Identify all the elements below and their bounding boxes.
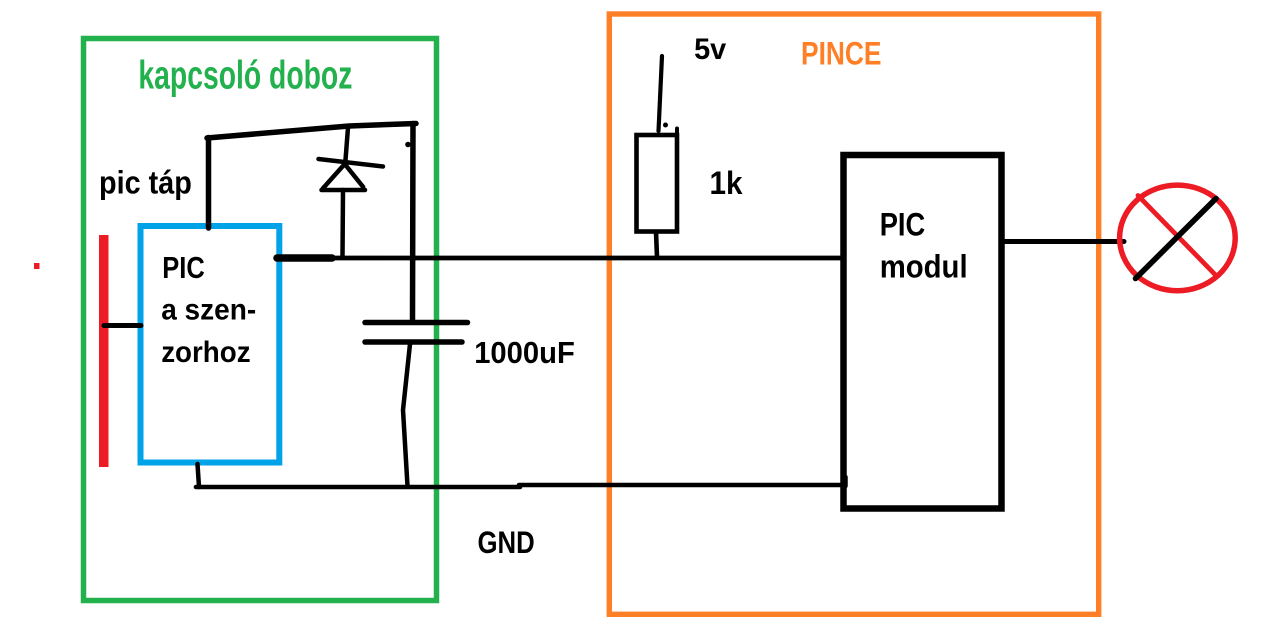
capacitor C1 lower lead [403,344,410,486]
lamp: red diagonal stroke [1138,196,1217,277]
sensor electrode bar (red) [99,235,109,467]
svg-text:1k: 1k [710,165,743,201]
lamp: black diagonal stroke [1136,199,1217,279]
junction dot on right vertical branch [405,142,411,148]
label: 5v [694,33,726,66]
box: PIC a szenzorhoz (sensor PIC) [141,226,280,463]
label: modul (modul line 2) [880,248,968,284]
wire: PIC modul output to lamp [1003,239,1124,244]
stray red dot [34,263,40,269]
wire: GND stub from sensor box bottom [198,464,200,487]
label: zorhoz (sensor box line 3) [161,336,250,369]
capacitor C1 top plate [365,320,468,326]
svg-text:modul: modul [880,248,968,284]
resistor R1 bottom lead [656,232,657,257]
box: PINCE enclosure [609,14,1098,614]
svg-text:zorhoz: zorhoz [161,336,250,369]
box: PIC modul [844,155,1002,509]
resistor R1 body (1k) [637,129,678,232]
svg-text:PIC: PIC [162,250,205,285]
box: kapcsoló doboz enclosure [84,39,437,601]
wire: vertical into top of PIC sensor box [206,138,212,229]
svg-text:a szen-: a szen- [161,293,256,326]
wire: sensor bar to PIC box [104,323,141,328]
lamp: red circle (crossed-out load) [1120,185,1236,291]
label: GND [478,524,535,560]
svg-text:PINCE: PINCE [801,36,882,72]
junction dot at resistor top [663,123,668,128]
label: PIC (modul line 1) [880,207,926,243]
wire: slanted top wire to diode/cap branch [207,124,416,139]
wire: GND horizontal net [196,477,846,487]
diode D1 triangle [322,164,366,190]
label: pic táp [99,165,192,201]
wire: main horizontal net (PIC sensor output to PIC modul) [277,256,843,261]
svg-text:GND: GND [478,524,535,560]
wire: right vertical branch (top corner down to capacitor) [410,124,416,322]
svg-text:pic táp: pic táp [99,165,192,201]
resistor R1 top lead (to 5v) [659,56,663,131]
svg-text:5v: 5v [694,33,726,66]
diode D1 upper lead [346,128,349,161]
label: 1k [710,165,743,201]
svg-text:1000uF: 1000uF [474,335,575,370]
label: a szen- (sensor box line 2) [161,293,256,326]
label: kapcsoló doboz [138,54,352,98]
capacitor C1 bottom plate [365,339,462,345]
diode D1 cathode crossbar [319,159,384,167]
svg-text:kapcsoló doboz: kapcsoló doboz [138,54,352,98]
svg-text:PIC: PIC [880,207,926,243]
label: PIC (sensor box line 1) [162,250,205,285]
label: PINCE [801,36,882,72]
diode D1 lower lead [340,190,345,257]
label: 1000uF [474,335,575,370]
